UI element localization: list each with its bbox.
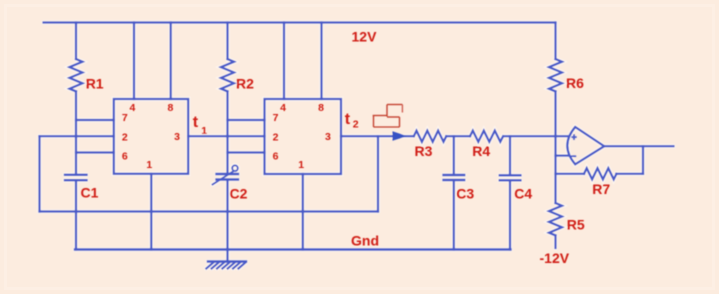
svg-text:3: 3 xyxy=(174,131,180,143)
svg-text:R1: R1 xyxy=(86,75,104,91)
wire C4 bottom xyxy=(509,181,511,250)
wire 12V top rail xyxy=(44,21,556,23)
wire IC1 pin1 down xyxy=(150,174,152,250)
svg-text:C1: C1 xyxy=(81,185,99,201)
resistor R5 xyxy=(549,203,562,235)
wire C2 to ground xyxy=(226,180,228,262)
svg-text:C3: C3 xyxy=(456,186,474,202)
svg-text:R3: R3 xyxy=(415,143,433,159)
svg-text:Gnd: Gnd xyxy=(351,232,379,248)
capacitor C1 xyxy=(65,174,87,176)
svg-text:12V: 12V xyxy=(352,28,378,44)
svg-text:-12V: -12V xyxy=(540,250,570,266)
wire R7 left lead xyxy=(556,173,585,175)
squarewave symbol xyxy=(373,105,403,128)
capacitor C2 trimmer plates xyxy=(217,173,239,175)
svg-text:t: t xyxy=(193,114,199,131)
wire IC2 pin1 down xyxy=(302,174,304,250)
resistor R2 xyxy=(221,59,234,91)
wire IC1 pin8 xyxy=(170,23,172,100)
svg-text:1: 1 xyxy=(298,159,304,171)
svg-text:2: 2 xyxy=(273,132,279,144)
wire R2 branch top xyxy=(226,23,228,60)
wire IC1 pin6 stub xyxy=(76,151,114,153)
resistor R4 xyxy=(470,131,503,142)
wire C4 top xyxy=(509,136,511,174)
IC U1 timer body xyxy=(114,99,188,174)
svg-text:8: 8 xyxy=(167,102,173,114)
node t2 xyxy=(345,111,359,130)
resistor R7 xyxy=(584,168,617,179)
wire C1 to ground rail xyxy=(75,181,77,250)
wire t2 signal line xyxy=(341,135,414,137)
wire C3 bottom xyxy=(453,181,455,250)
ground bar xyxy=(208,260,246,263)
resistor R1 xyxy=(70,59,83,91)
svg-text:6: 6 xyxy=(273,151,279,163)
svg-text:R7: R7 xyxy=(592,181,610,197)
wire R2 bottom to C2 xyxy=(226,91,228,173)
arrow into R3 xyxy=(393,131,408,141)
IC2 pin numbers xyxy=(273,102,331,171)
wire output line xyxy=(604,145,673,147)
op-amp U3 body xyxy=(567,127,604,164)
svg-text:R2: R2 xyxy=(236,75,254,91)
capacitor C2 trimmer arrow xyxy=(213,172,234,185)
wire IC2 pin6 stub xyxy=(228,151,265,153)
IC U2 timer body xyxy=(265,99,342,174)
svg-text:R4: R4 xyxy=(472,143,490,159)
wire Gnd rail xyxy=(75,248,511,250)
capacitor C3 xyxy=(444,174,465,176)
svg-text:t: t xyxy=(345,111,351,128)
resistor R6 xyxy=(549,59,562,91)
resistor R3 xyxy=(414,131,446,142)
wire IC1 pin2 line xyxy=(40,135,114,137)
ground hatches xyxy=(206,262,245,268)
svg-text:7: 7 xyxy=(122,112,128,124)
svg-text:2: 2 xyxy=(122,132,128,144)
wire R3 to R4 xyxy=(446,135,470,137)
wire t1: IC1 pin3 to IC2 pin2 xyxy=(188,135,264,137)
svg-text:C4: C4 xyxy=(514,186,532,202)
wire R7 right lead xyxy=(616,173,643,175)
svg-text:4: 4 xyxy=(280,102,286,114)
svg-text:3: 3 xyxy=(325,131,331,143)
svg-text:1: 1 xyxy=(146,159,152,171)
svg-text:R6: R6 xyxy=(566,75,584,91)
wire feedback vertical xyxy=(642,146,644,174)
wire R1 branch top xyxy=(75,23,77,60)
wire t2 feedback corner xyxy=(377,136,379,211)
wire IC2 pin8 xyxy=(320,23,322,100)
wire glow underlay xyxy=(40,23,674,269)
wire far-left vertical xyxy=(38,136,40,211)
svg-text:C2: C2 xyxy=(230,186,248,202)
wire IC2 pin7 stub xyxy=(228,119,265,121)
wire feedback bottom line xyxy=(40,210,379,212)
op-amp minus sign xyxy=(571,155,577,157)
wire R1 bottom to C1 xyxy=(75,91,77,174)
svg-text:7: 7 xyxy=(273,112,279,124)
wire R5 to -12V xyxy=(554,235,556,248)
node t1 xyxy=(193,114,208,137)
svg-text:2: 2 xyxy=(353,119,359,131)
wire IC1 pin4 xyxy=(133,23,135,100)
svg-text:R5: R5 xyxy=(567,217,585,233)
svg-text:8: 8 xyxy=(318,102,324,114)
wire R6 bottom to R5 xyxy=(554,91,556,203)
op-amp plus sign xyxy=(571,134,577,156)
wire IC2 pin4 xyxy=(283,23,285,100)
wire R4 to op-amp plus input xyxy=(504,135,568,137)
IC1 pin numbers xyxy=(122,102,180,171)
capacitor C4 xyxy=(500,174,521,176)
svg-text:6: 6 xyxy=(122,151,128,163)
wire IC1 pin7 stub xyxy=(76,119,114,121)
wire minus input stub xyxy=(556,155,569,157)
wire R6 branch xyxy=(554,23,556,60)
svg-text:1: 1 xyxy=(201,125,207,137)
wire C3 top xyxy=(453,136,455,174)
svg-text:4: 4 xyxy=(129,102,135,114)
